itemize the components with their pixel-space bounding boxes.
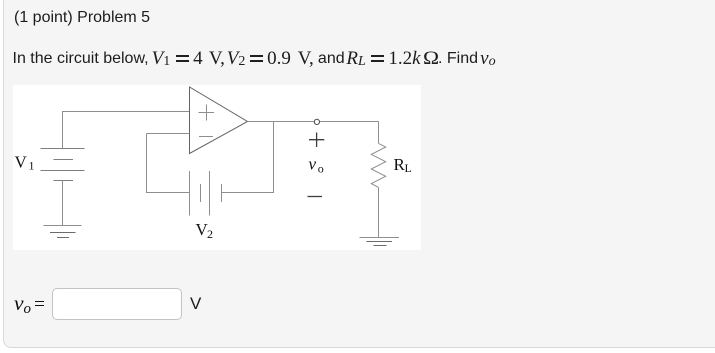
svg-text:V: V: [15, 153, 28, 172]
wire V1 top to op-amp noninverting input: [63, 112, 190, 149]
ground V1 line 3: [57, 237, 69, 239]
svg-text:v: v: [309, 155, 317, 174]
ground RL line 1: [360, 237, 400, 239]
battery V1 plate short: [54, 159, 74, 161]
vo plus sign: [309, 133, 324, 148]
wire V2 to output node: [222, 122, 274, 193]
wire output down to RL: [378, 122, 380, 144]
heading line: [14, 9, 150, 27]
ground V1 line 2: [50, 232, 76, 234]
resistor RL zigzag: [371, 143, 385, 187]
wire V1 to ground: [62, 181, 64, 226]
battery V2 plate long left: [189, 171, 191, 216]
unit V: [190, 294, 201, 314]
output terminal node circle: [314, 119, 319, 124]
circuit image: [13, 85, 421, 250]
answer input box: [52, 288, 182, 320]
wire RL to ground: [378, 187, 380, 237]
battery V2 plate short right: [221, 184, 223, 202]
svg-text:o: o: [318, 162, 324, 176]
wire op-amp output: [248, 121, 379, 123]
wire feedback left and bottom: [147, 134, 190, 193]
wire inverting input: [147, 133, 190, 135]
answer label vo =: [14, 291, 44, 316]
battery V2 plate long: [209, 171, 211, 216]
battery V1 plate short bottom: [54, 180, 74, 182]
battery V1 plate long: [41, 170, 85, 172]
battery V1 plate long top: [41, 148, 85, 150]
svg-text:2: 2: [207, 227, 213, 241]
battery V2 plate short: [200, 184, 202, 202]
problem statement line: [13, 47, 496, 69]
op-amp minus sign: [199, 136, 213, 138]
op-amp plus sign: [199, 105, 215, 121]
ground V1 line 1: [44, 225, 82, 227]
op-amp U1 triangle: [190, 87, 248, 154]
ground RL line 3: [374, 245, 387, 247]
ground RL line 2: [367, 241, 393, 243]
vo minus sign: [308, 196, 323, 198]
svg-text:1: 1: [29, 159, 35, 173]
svg-text:L: L: [405, 161, 412, 175]
